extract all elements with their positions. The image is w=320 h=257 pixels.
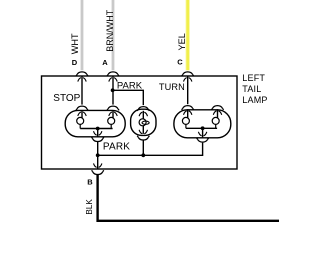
svg-text:STOP: STOP: [53, 93, 80, 104]
label WHT: [70, 33, 80, 54]
svg-text:WHT: WHT: [70, 33, 80, 54]
junction dot at park bulb ground: [141, 153, 145, 157]
stop/park bulb ground lead: [97, 129, 99, 137]
turn bulb outline: [174, 110, 231, 138]
label YEL: [177, 33, 187, 50]
label TURN: [159, 82, 185, 92]
svg-text:TAIL: TAIL: [242, 84, 261, 94]
wire WHT (gray) from top edge to connector D: [81, 0, 84, 70]
connector fork inside box at D: [78, 78, 86, 82]
svg-text:YEL: YEL: [177, 33, 187, 50]
connector fork inside box at A: [109, 78, 117, 82]
socket cap at unused filament of turn bulb: [211, 106, 223, 110]
connector cap at terminal C: [182, 72, 194, 76]
wire from ground bus to terminal B: [97, 155, 99, 169]
unused filament loop of turn bulb: [212, 117, 219, 128]
fork at turn bulb bottom: [198, 132, 206, 136]
wire YEL (yellow) from top edge to connector C: [185, 0, 189, 70]
connector fork inside box at C: [184, 78, 192, 82]
terminal A label: [102, 58, 108, 67]
turn filament loop: [182, 117, 189, 128]
connector fork inside box at B: [94, 163, 102, 167]
wire branch from A junction to park bulb: [113, 90, 144, 105]
socket cap at park filament of stop/park bulb: [107, 106, 119, 110]
terminal B label: [87, 177, 93, 186]
junction dot on A wire: [111, 88, 115, 92]
internal bus of turn bulb: [186, 127, 217, 129]
svg-text:BLK: BLK: [85, 199, 94, 215]
socket cup below stop/park bulb: [92, 137, 104, 141]
ground bus wire inside box: [98, 154, 144, 156]
fork inside turn bulb at turn filament: [184, 111, 192, 115]
socket cap at turn filament: [182, 106, 194, 110]
label LEFT TAIL LAMP: [242, 73, 267, 105]
unused filament lead of turn bulb: [217, 109, 219, 118]
label BRN/WHT: [105, 9, 115, 51]
wire D to stop filament: [81, 76, 83, 105]
wire from park bulb to ground bus: [142, 141, 144, 156]
svg-text:PARK: PARK: [103, 142, 130, 153]
fork inside park bulb top: [139, 112, 147, 116]
svg-text:B: B: [87, 177, 93, 186]
terminal D label: [72, 58, 78, 67]
fork at stop/park bulb bottom: [94, 131, 102, 135]
park bulb filament lead top: [142, 111, 144, 119]
svg-text:TURN: TURN: [159, 82, 185, 92]
fork at park bulb bottom: [139, 130, 147, 134]
stop/park bulb outline: [65, 110, 125, 136]
terminal C label: [177, 58, 183, 67]
svg-text:C: C: [177, 58, 183, 67]
park bulb filament lead bottom: [142, 126, 144, 134]
stop filament lead: [81, 110, 83, 118]
socket cap at stop filament: [76, 106, 88, 110]
wire from stop/park bulb to ground bus: [97, 142, 99, 155]
label PARK (top): [117, 81, 143, 92]
connector cap at terminal A: [107, 72, 119, 76]
connector cup below box at B: [92, 170, 104, 174]
lamp housing box: [42, 76, 238, 169]
park filament loop (stop/park bulb): [108, 117, 115, 128]
wire A down to park filament of stop/park bulb: [112, 76, 114, 105]
svg-text:LAMP: LAMP: [242, 95, 267, 105]
socket cup below park bulb: [137, 136, 149, 140]
svg-text:LEFT: LEFT: [242, 73, 265, 83]
fork inside turn bulb at unused filament: [213, 111, 221, 115]
internal bus of stop/park bulb: [80, 128, 112, 130]
junction dot in turn bulb: [201, 126, 205, 130]
connector cap at terminal D: [76, 72, 88, 76]
wire BLK (black) from B down and right to edge: [98, 175, 279, 221]
svg-text:BRN/WHT: BRN/WHT: [105, 9, 115, 51]
socket cap at park bulb top: [137, 107, 149, 111]
svg-text:D: D: [72, 58, 78, 67]
park filament lead (stop/park bulb): [112, 110, 114, 118]
socket cup below turn bulb: [197, 138, 209, 142]
svg-text:A: A: [102, 58, 108, 67]
park bulb outline: [131, 109, 156, 135]
label PARK (bottom): [103, 142, 130, 153]
junction dot in stop/park bulb: [96, 127, 100, 131]
park bulb filament loop: [139, 119, 149, 126]
label BLK: [85, 199, 94, 215]
turn filament lead: [187, 109, 189, 118]
label STOP: [53, 93, 80, 104]
stop filament loop: [77, 117, 84, 128]
wire BRN/WHT (gray) from top edge to connector A: [112, 0, 115, 70]
wire from turn bulb down and left to ground bus: [143, 143, 202, 156]
junction dot at stop/park bulb ground: [96, 153, 100, 157]
fork inside stop/park bulb at park filament: [109, 112, 117, 116]
turn bulb ground lead: [202, 128, 204, 137]
wire C to turn filament: [187, 76, 189, 104]
fork inside stop/park bulb at stop filament: [78, 112, 86, 116]
